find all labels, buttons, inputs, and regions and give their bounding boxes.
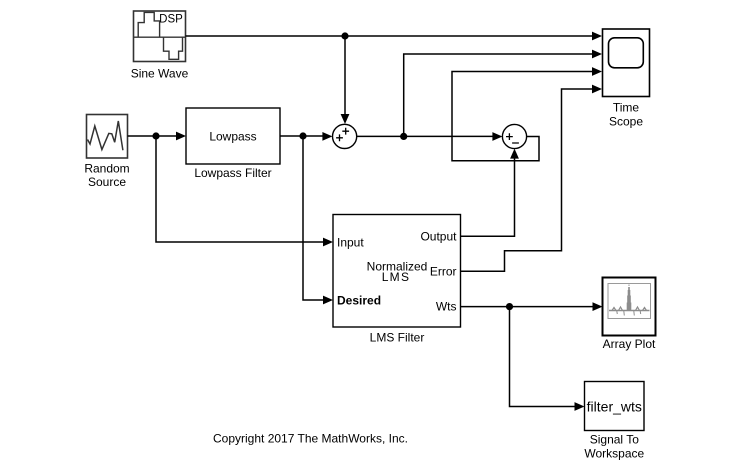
svg-text:Source: Source	[88, 175, 126, 189]
svg-text:Time: Time	[613, 100, 640, 114]
sum block S1 (+ +)	[333, 124, 357, 148]
junction on sum S1 output	[400, 133, 407, 140]
wire: branch down into sum S1 top	[341, 36, 350, 124]
block Lowpass Filter	[186, 108, 280, 164]
svg-text:filter_wts: filter_wts	[587, 398, 642, 414]
block Signal To Workspace	[585, 382, 645, 431]
svg-text:Array Plot: Array Plot	[603, 337, 656, 351]
wire: Lowpass Filter to sum S1	[280, 132, 332, 141]
svg-text:LMS: LMS	[382, 270, 411, 284]
wire: branch up to Time Scope port 2	[404, 50, 602, 137]
wire: branch down to Signal To Workspace	[510, 307, 585, 411]
wire: Sine Wave to Time Scope port 1	[186, 32, 603, 41]
svg-text:Random: Random	[84, 161, 129, 175]
junction at sine wire / sum1 branch	[341, 32, 348, 39]
svg-text:Wts: Wts	[436, 299, 457, 313]
wire: sum S2 output loop to Time Scope port 3	[452, 67, 602, 161]
svg-text:Output: Output	[420, 229, 457, 243]
wire: LMS Output up into sum S2 minus	[461, 149, 519, 237]
wire: LMS Error to Time Scope port 4	[461, 85, 603, 272]
svg-text:Scope: Scope	[609, 114, 643, 128]
svg-text:Copyright 2017 The MathWorks,: Copyright 2017 The MathWorks, Inc.	[213, 432, 408, 446]
block Array Plot	[603, 278, 656, 336]
wire: branch down to LMS Desired	[303, 136, 333, 304]
svg-text:Signal To: Signal To	[590, 433, 639, 447]
wire: branch down to LMS Input	[156, 136, 333, 246]
svg-text:Lowpass Filter: Lowpass Filter	[194, 166, 271, 180]
svg-text:Desired: Desired	[337, 293, 381, 307]
sinc plot icon	[609, 285, 650, 316]
wire: Random Source to Lowpass Filter	[128, 132, 187, 141]
svg-text:DSP: DSP	[159, 14, 183, 26]
junction on Lowpass output	[299, 132, 306, 139]
junction on Wts wire	[506, 303, 513, 310]
svg-text:Sine Wave: Sine Wave	[131, 67, 189, 81]
svg-text:Workspace: Workspace	[584, 446, 644, 460]
svg-text:Error: Error	[430, 264, 457, 278]
sum block S2 (+ -)	[502, 124, 526, 148]
block Time Scope	[603, 29, 650, 97]
svg-text:LMS Filter: LMS Filter	[370, 330, 425, 344]
block Random Source	[87, 115, 128, 159]
svg-text:Lowpass: Lowpass	[209, 129, 256, 143]
svg-text:Input: Input	[337, 235, 364, 249]
block Sine Wave (DSP source)	[134, 11, 186, 62]
block LMS Filter	[333, 215, 461, 328]
wire: sum S1 output to sum S2	[357, 132, 503, 141]
wire: LMS Wts to Array Plot	[461, 302, 603, 311]
junction on Random Source output	[152, 132, 159, 139]
